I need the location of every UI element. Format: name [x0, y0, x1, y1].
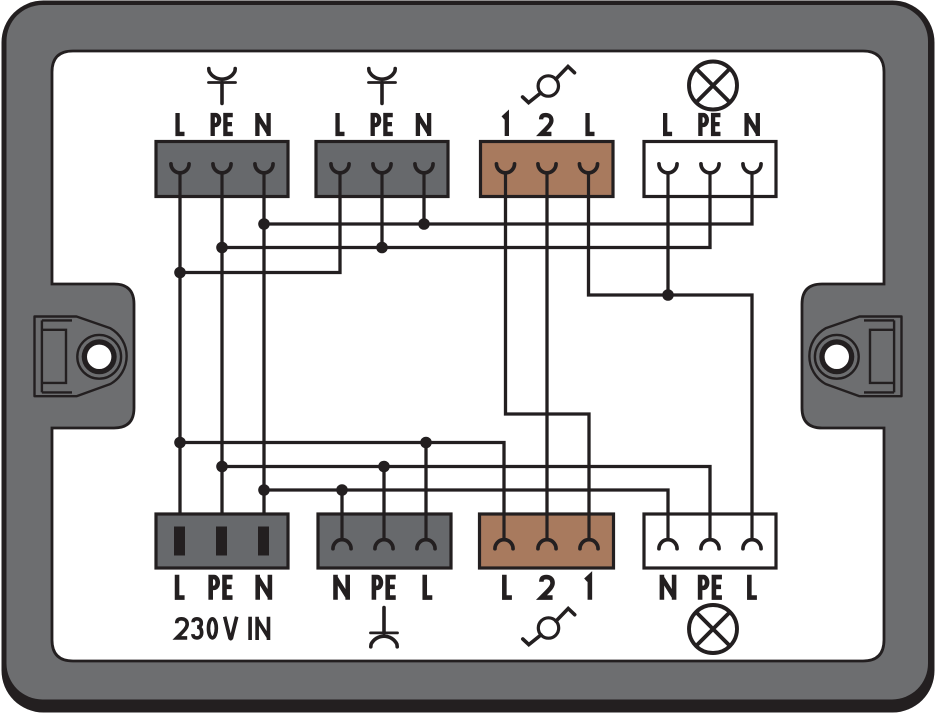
- TERMINAL CONTACTS: [171, 164, 761, 549]
- wire top PE bus to lamp block PE: [222, 174, 710, 248]
- value label 2: [177, 619, 187, 638]
- contact X4 pin N: [743, 164, 761, 196]
- label X6 L: [425, 575, 433, 598]
- terminal block X7 bottom (L 2 1 switch, brown): [480, 514, 614, 568]
- terminal block X8 bottom (N PE L lamp, white): [644, 514, 776, 568]
- contact X2 pin PE: [373, 164, 391, 196]
- value label V: [225, 617, 237, 639]
- JUNCTION DOTS: [174, 218, 674, 496]
- contact X1 pin N: [255, 164, 273, 196]
- label X1 N: [257, 113, 268, 136]
- wire bottom block2 L drop: [424, 443, 427, 539]
- contact X8 pin PE: [701, 514, 719, 549]
- contact X8 pin L: [743, 514, 761, 549]
- label X5 PE: [211, 577, 233, 600]
- wire top block2 N drop: [422, 174, 425, 224]
- right mounting lug (mirrored): [809, 317, 901, 397]
- right mounting lug outline: [809, 317, 901, 397]
- two-way switch symbol below X7: [523, 609, 575, 645]
- wire bottom block2 PE drop: [382, 467, 385, 539]
- contact X1 pin L: [171, 164, 189, 196]
- terminal block X5 bottom (230V IN): [156, 514, 288, 568]
- lamp symbol above X4: [689, 62, 737, 110]
- label X7 2: [541, 577, 552, 598]
- right mounting lug hole: [819, 339, 854, 374]
- left mounting lug hole: [82, 339, 117, 374]
- contact X7 pin L: [495, 514, 513, 549]
- contact X6 pin L: [417, 514, 435, 549]
- label X4 L: [665, 113, 672, 134]
- wire switch line 2: [545, 174, 548, 539]
- wire bottom PE bus to bottom lamp PE: [222, 467, 710, 539]
- junction bottom N bus at block2: [336, 484, 348, 496]
- label X6 PE: [374, 577, 396, 600]
- wire switch line 1 (top to bottom with jog): [506, 174, 590, 539]
- contact X8 pin N: [659, 514, 677, 549]
- contact X5 pin PE (solid): [216, 527, 227, 556]
- contact X3 pin 2: [538, 164, 556, 196]
- wire N main bus (top block1 N to bottom block1 N): [262, 174, 265, 529]
- label X5 L: [177, 575, 185, 598]
- label X2 L: [338, 113, 345, 134]
- label X3 L: [588, 113, 595, 134]
- wire bottom L bus to bottom switch L: [180, 443, 504, 539]
- wire top N bus to lamp block N: [264, 174, 752, 224]
- contact X6 pin PE: [375, 514, 393, 549]
- contact X4 pin L: [659, 164, 677, 196]
- junction bottom PE bus at block1: [216, 461, 228, 473]
- label X4 N: [747, 113, 758, 136]
- terminal block X3 top (1 2 L switch, brown): [481, 142, 614, 197]
- wire L link to top block2: [180, 174, 340, 273]
- wire switch L feed to both lamps: [589, 174, 753, 539]
- junction PE bus at block1: [216, 242, 228, 254]
- label X7 L: [504, 575, 512, 598]
- terminal block X2 top (L PE N socket): [316, 142, 448, 197]
- label X1 PE: [213, 115, 233, 136]
- terminal block X6 bottom (N PE L socket): [318, 514, 451, 568]
- contact X5 pin L (solid): [174, 527, 185, 556]
- contact X4 pin PE: [701, 164, 719, 196]
- wire top block2 PE drop: [380, 174, 383, 248]
- value label 3: [193, 619, 202, 638]
- terminal block X4 top (L PE N lamp, white): [644, 142, 776, 197]
- contact X3 pin L: [579, 164, 597, 196]
- label X2 PE: [373, 115, 393, 136]
- contact X2 pin N: [415, 164, 433, 196]
- label X8 L: [749, 575, 757, 598]
- label X3 2: [541, 115, 551, 134]
- socket outlet symbol above X2: [369, 69, 396, 104]
- label X1 L: [178, 113, 185, 134]
- socket outlet symbol below X6: [371, 608, 398, 647]
- label X8 N: [662, 575, 674, 600]
- contact X7 pin 2: [538, 514, 556, 549]
- lamp symbol below X8: [689, 605, 737, 653]
- terminal block X1 top (L PE N supply socket): [156, 142, 288, 197]
- left mounting lug outline: [35, 317, 127, 397]
- junction bottom PE bus at block2: [378, 461, 390, 473]
- wire PE main bus (top block1 PE to bottom block1 PE): [220, 174, 223, 529]
- enclosure inner white panel with ear notches: [52, 51, 884, 661]
- value label 0: [208, 619, 216, 638]
- wire top lamp L drop: [666, 174, 669, 295]
- value label I: [248, 617, 252, 640]
- junction N bus at block1: [258, 218, 270, 230]
- wire bottom N bus to bottom lamp N: [264, 490, 668, 539]
- two-way switch symbol above X3: [523, 67, 575, 103]
- value label N: [257, 617, 268, 640]
- junction PE bus at block2: [376, 242, 388, 254]
- contact X7 pin 1: [580, 514, 598, 549]
- label X2 N: [418, 113, 429, 136]
- contact X6 pin N: [333, 514, 351, 549]
- label X6 N: [336, 575, 348, 600]
- label X3 1: [503, 114, 507, 136]
- label X7 1: [586, 576, 590, 599]
- junction lamp feed at top lamp L: [662, 289, 674, 301]
- junction bottom L bus at block1: [174, 437, 186, 449]
- junction bottom N bus at block1: [258, 484, 270, 496]
- label X5 N: [258, 575, 270, 600]
- junction N bus at block2: [418, 218, 430, 230]
- label X4 PE: [700, 115, 720, 136]
- junction L bus at block1: [174, 267, 186, 279]
- contact X3 pin 1: [496, 164, 514, 196]
- contact X5 pin N (solid): [258, 527, 269, 556]
- contact X1 pin PE: [213, 164, 231, 196]
- junction bottom L bus at block2: [420, 437, 432, 449]
- contact X2 pin L: [331, 164, 349, 196]
- wire L main bus (top block1 L to bottom block1 L): [178, 174, 181, 529]
- label X8 PE: [700, 577, 722, 600]
- wire bottom block2 N drop: [340, 490, 343, 539]
- socket outlet symbol above X1: [209, 69, 236, 104]
